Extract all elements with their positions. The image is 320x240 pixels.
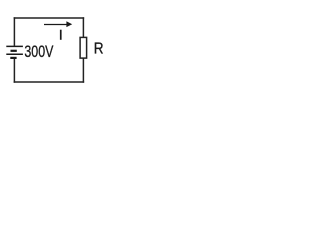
- svg-text:R: R: [94, 41, 104, 58]
- resistor R body (box): [80, 37, 87, 58]
- wire: left vertical lower (from battery - plate): [13, 58, 15, 83]
- current arrow shaft: [44, 24, 68, 26]
- battery V1 long plate (top cell +): [6, 45, 23, 47]
- wire: top horizontal: [14, 17, 85, 19]
- svg-text:300V: 300V: [24, 43, 53, 61]
- current arrow head: [66, 21, 72, 27]
- wire: right vertical lower (from resistor pin 2): [82, 58, 84, 82]
- wire: left vertical upper (to battery + plate): [13, 17, 15, 46]
- battery V1 short thick plate (top cell -): [11, 50, 17, 52]
- wire: right vertical upper (to resistor pin 1): [82, 17, 84, 37]
- current label I: [60, 30, 62, 40]
- battery V1 long plate (bottom cell +): [6, 53, 23, 55]
- wire: bottom horizontal: [14, 81, 85, 83]
- battery V1 short thick plate (bottom cell -): [10, 57, 16, 59]
